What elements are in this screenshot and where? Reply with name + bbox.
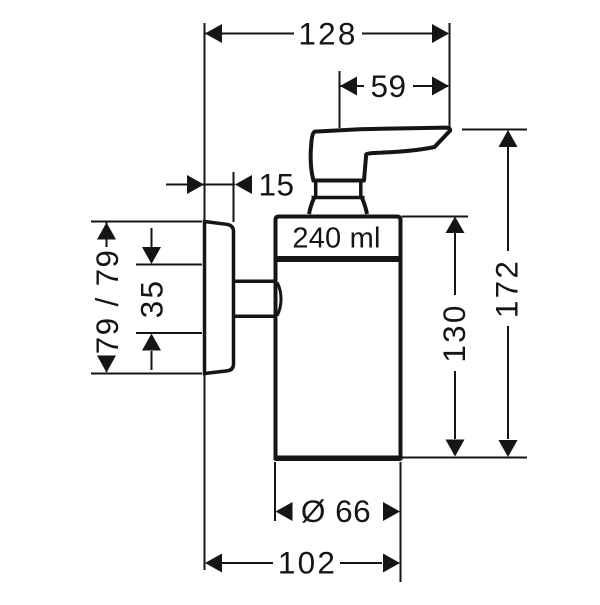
dim 15: right arrow (outside, pointing left)	[235, 175, 252, 194]
bottle bottom thick edge	[275, 456, 402, 462]
wall plate (side view)	[205, 222, 234, 374]
holder ring bulge	[277, 283, 281, 316]
dim diameter 66: left extension line	[274, 462, 276, 521]
dim 130: top extension line	[402, 216, 468, 218]
svg-text:130: 130	[436, 303, 472, 362]
svg-text:102: 102	[278, 545, 337, 581]
dim diameter 66: right extension line	[400, 462, 402, 582]
pump neck ring	[312, 181, 365, 198]
wall extension line (left, x=204.5)	[204, 23, 206, 570]
bracket arm bottom line	[234, 314, 276, 318]
dim 59: left extension line	[339, 71, 341, 128]
dim 15: left arrow (outside, pointing right)	[187, 175, 204, 194]
dim 35: top arrow (pointing down)	[142, 247, 161, 264]
dim diameter 66: text	[301, 493, 371, 529]
svg-text:15: 15	[258, 167, 294, 203]
dim 172: top extension line	[462, 129, 527, 131]
svg-text:59: 59	[370, 68, 406, 104]
bracket arm top line	[234, 279, 276, 283]
bottle collar black strip	[275, 256, 402, 262]
dim 172: bottom arrow	[499, 440, 518, 457]
svg-text:172: 172	[489, 259, 525, 318]
svg-text:240 ml: 240 ml	[292, 223, 380, 255]
pump flange (flare)	[309, 198, 367, 214]
svg-text:35: 35	[134, 279, 170, 318]
dim 59: left arrow	[340, 77, 357, 96]
dim 172: bottom extension line	[402, 457, 527, 459]
dim 172: text	[489, 259, 525, 318]
dim 79/79: top extension line	[91, 221, 202, 223]
bottle body outline	[276, 217, 401, 459]
dim diameter 66: right arrow	[383, 502, 400, 521]
dim 130: text	[436, 303, 472, 362]
svg-text:79 / 79: 79 / 79	[89, 249, 125, 354]
dim 172: dimension line	[507, 147, 509, 439]
dim 59: right arrow	[432, 77, 449, 96]
svg-text:Ø 66: Ø 66	[301, 493, 371, 529]
dim 102: left arrow	[205, 554, 222, 573]
dim 130: dimension line	[454, 233, 456, 439]
dim 35: text	[134, 279, 170, 318]
dim 172: top arrow	[499, 130, 518, 147]
dim 59: text	[370, 68, 406, 104]
dim 59: dimension line	[340, 85, 448, 87]
dim 35: bottom arrow (pointing up)	[142, 334, 161, 351]
dim 128: text	[298, 16, 357, 52]
dim 128: right arrow	[432, 24, 449, 43]
dim 102: text	[278, 545, 337, 581]
dim 79/79: dimension line	[106, 222, 108, 372]
label 240 ml	[292, 223, 380, 255]
dim 79/79: bottom arrow	[97, 356, 116, 373]
dim 130: bottom arrow	[446, 440, 465, 457]
dim 128: left arrow	[205, 24, 222, 43]
dim 15: tail line	[166, 184, 235, 186]
pump head and lever silhouette	[311, 128, 450, 181]
dim 35: dimension line	[151, 228, 153, 370]
dim 15: right extension line	[233, 172, 235, 222]
dim diameter 66: left arrow	[276, 502, 293, 521]
dim 79/79: text	[89, 249, 125, 354]
dim 128: right extension line	[449, 23, 451, 127]
dim 79/79: bottom extension line	[91, 373, 202, 375]
dim 102: dimension line	[222, 562, 382, 564]
dim 35: bottom extension line	[136, 332, 202, 334]
dim 15: text	[258, 167, 294, 203]
dim 102: right arrow	[383, 554, 400, 573]
dim 130: top arrow	[446, 217, 465, 234]
dim 79/79: top arrow	[97, 223, 116, 240]
dim 128: dimension line	[205, 33, 448, 35]
dim 35: top extension line	[136, 264, 202, 266]
svg-text:128: 128	[298, 16, 357, 52]
